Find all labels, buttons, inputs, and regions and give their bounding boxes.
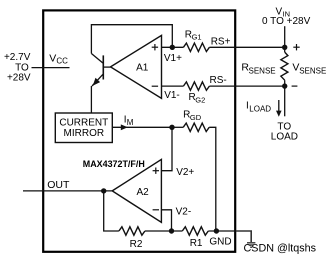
node GND junction dot — [214, 228, 219, 233]
ground — [247, 243, 255, 247]
svg-text:LOAD: LOAD — [271, 132, 298, 143]
wire RS- to sense resistor — [209, 85, 284, 87]
wire A1 noninverting input to RG1 — [162, 46, 184, 48]
resistor R1 — [182, 227, 208, 235]
pin label VCC — [49, 52, 68, 65]
svg-text:TO: TO — [277, 121, 291, 132]
svg-text:LOAD: LOAD — [249, 104, 271, 113]
label IM — [124, 115, 134, 127]
resistor R2 — [119, 227, 145, 235]
svg-text:SENSE: SENSE — [249, 66, 276, 75]
label VIN — [276, 6, 291, 18]
node IM junction dot — [169, 125, 174, 130]
svg-text:V2+: V2+ — [176, 167, 194, 178]
label + at sense top — [293, 44, 299, 50]
wire Q1 emitter to current mirror — [90, 86, 92, 113]
wire RS+ to sense resistor — [209, 46, 284, 48]
resistor RGD — [183, 123, 209, 131]
svg-text:+28V: +28V — [7, 73, 31, 84]
svg-text:RS-: RS- — [210, 75, 227, 86]
wire Q1 collector to feedback loop — [91, 25, 172, 54]
wire VCC pin stub — [32, 67, 70, 69]
op-amp A2 — [112, 159, 161, 222]
wire rail below RSENSE — [284, 80, 286, 116]
svg-text:V1-: V1- — [164, 90, 180, 101]
resistor RG2 — [183, 82, 209, 90]
wire A2 inverting input to feedback node — [161, 210, 171, 231]
wire A2 noninverting input to IM node — [161, 127, 172, 170]
label TO LOAD — [271, 121, 298, 142]
wire OUT node down to R2 — [104, 191, 119, 231]
svg-text:RS+: RS+ — [211, 36, 231, 47]
IC outline box MAX4372 — [43, 10, 235, 251]
svg-text:0 TO +28V: 0 TO +28V — [262, 16, 311, 27]
wire GND pin to ground — [236, 231, 251, 242]
node sense+ junction dot — [282, 45, 287, 50]
svg-text:V1+: V1+ — [164, 53, 182, 64]
wire RGD to GND node — [209, 127, 216, 231]
svg-text:V2-: V2- — [176, 207, 192, 218]
wire R2 to feedback node — [145, 230, 182, 232]
arrow IM direction — [121, 124, 128, 130]
svg-text:CC: CC — [56, 56, 68, 65]
transistor Q1 — [91, 54, 110, 87]
label ILOAD — [246, 101, 271, 114]
wire R1 to GND pin — [208, 230, 236, 232]
wire IM node to RGD — [172, 126, 183, 128]
label VSENSE — [292, 61, 326, 75]
svg-text:OUT: OUT — [47, 179, 70, 191]
svg-text:G1: G1 — [192, 32, 202, 41]
svg-text:MAX4372T/F/H: MAX4372T/F/H — [83, 159, 145, 170]
resistor RG1 — [183, 43, 209, 51]
supply label +2.7V TO +28V — [4, 52, 31, 83]
svg-text:MIRROR: MIRROR — [64, 128, 105, 139]
label - at sense bottom — [292, 85, 298, 87]
current mirror block — [55, 113, 112, 143]
label RG2 — [189, 92, 206, 104]
svg-text:V: V — [49, 52, 56, 64]
resistor RSENSE — [281, 52, 288, 80]
op-amp A1 — [111, 35, 162, 98]
svg-text:GD: GD — [190, 113, 202, 122]
label RGD — [183, 110, 202, 122]
wire VIN rail — [284, 26, 286, 52]
node sense- junction dot — [282, 83, 287, 88]
svg-text:CSDN @ltqshs: CSDN @ltqshs — [244, 242, 317, 254]
svg-text:GND: GND — [209, 237, 231, 248]
svg-text:R1: R1 — [190, 238, 203, 249]
svg-text:SENSE: SENSE — [299, 66, 326, 75]
svg-text:G2: G2 — [195, 95, 205, 104]
node V1+ junction dot — [170, 45, 175, 50]
wire IM from mirror output — [112, 126, 172, 128]
label RG1 — [185, 29, 202, 41]
svg-text:R2: R2 — [130, 239, 143, 250]
label RSENSE — [241, 61, 275, 75]
wire A1 inverting input to RG2 — [162, 85, 184, 87]
node OUT junction dot — [101, 188, 106, 193]
svg-text:A2: A2 — [137, 187, 150, 198]
wire OUT from A2 output — [23, 190, 112, 192]
arrow ILOAD current direction — [276, 100, 282, 117]
svg-text:A1: A1 — [136, 62, 149, 73]
node feedback junction dot — [169, 228, 174, 233]
svg-text:M: M — [127, 118, 134, 127]
svg-text:CURRENT: CURRENT — [59, 117, 108, 128]
